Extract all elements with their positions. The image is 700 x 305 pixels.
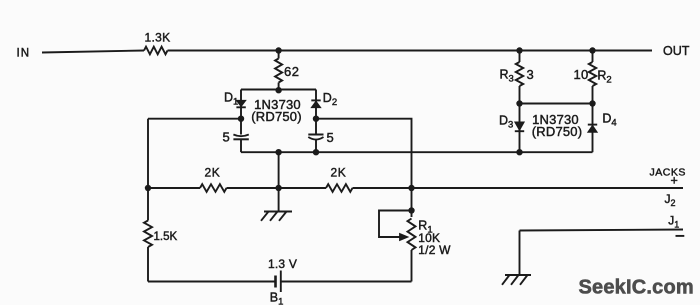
svg-text:JACKS: JACKS (650, 167, 686, 179)
wire (315, 90, 317, 135)
svg-text:IN: IN (17, 48, 31, 60)
svg-text:OUT: OUT (663, 44, 690, 58)
junction (408, 185, 414, 191)
wire (592, 104, 594, 153)
svg-text:1.3K: 1.3K (145, 31, 171, 45)
wire (520, 103, 593, 105)
svg-text:1.3 V: 1.3 V (268, 257, 297, 271)
svg-text:10: 10 (574, 67, 589, 82)
junction (589, 100, 595, 106)
jack J2 (665, 192, 676, 208)
junction (516, 100, 522, 106)
watermark SeekIC.com (579, 277, 694, 299)
label 1N3730 (RD750) lower (532, 112, 583, 139)
potentiometer R1 10K 1/2 W (379, 188, 451, 257)
junction (275, 185, 281, 191)
junction (589, 47, 595, 53)
ground (502, 275, 531, 285)
node JACKS + (650, 167, 686, 188)
wire (148, 187, 200, 189)
wire (240, 90, 242, 135)
wire (241, 89, 316, 91)
junction (238, 116, 244, 122)
resistor 1.5K (144, 221, 177, 248)
wire (316, 119, 412, 188)
junction (275, 149, 281, 155)
svg-text:1/2 W: 1/2 W (418, 243, 451, 257)
wire (281, 281, 412, 283)
wire (278, 152, 280, 188)
junction (313, 149, 319, 155)
svg-text:SeekIC.com: SeekIC.com (579, 277, 694, 299)
ground (261, 188, 292, 221)
capacitor 5 (left) (223, 130, 249, 145)
wire (148, 118, 241, 120)
capacitor 5 (right) (308, 130, 333, 145)
svg-text:(RD750): (RD750) (532, 124, 583, 139)
resistor R3 (3) (500, 51, 534, 104)
resistor 2K (left) (200, 166, 227, 192)
wire (147, 247, 149, 282)
svg-text:5: 5 (223, 130, 230, 145)
junction (516, 47, 522, 53)
svg-text:1.5K: 1.5K (154, 231, 178, 243)
junction (275, 87, 281, 93)
resistor R2 (10) (574, 51, 612, 104)
svg-text:5: 5 (327, 130, 334, 145)
battery B1 1.3 V (268, 257, 297, 305)
wire (240, 140, 242, 152)
svg-text:(RD750): (RD750) (251, 109, 302, 124)
wire (519, 231, 521, 276)
resistor 62 (275, 51, 299, 90)
wire (148, 281, 276, 283)
node IN (17, 48, 31, 60)
svg-text:62: 62 (284, 64, 299, 79)
junction (313, 116, 319, 122)
wire (353, 187, 684, 189)
wire (42, 51, 144, 53)
resistor 2K (right) (326, 166, 353, 192)
wire (227, 187, 327, 189)
wire (519, 104, 521, 153)
svg-text:+: + (671, 174, 678, 188)
node OUT (663, 44, 690, 58)
diode D3 (499, 114, 524, 132)
svg-text:2K: 2K (331, 166, 347, 180)
resistor 1.3K (144, 31, 170, 55)
diode D2 (311, 91, 337, 108)
svg-text:2K: 2K (205, 166, 221, 180)
diode D1 (224, 90, 246, 107)
wire (411, 250, 413, 282)
junction (275, 47, 281, 53)
jack J1 (520, 214, 685, 236)
diode D4 (588, 111, 617, 132)
label 1N3730 (RD750) upper (251, 97, 302, 124)
junction (145, 185, 151, 191)
wire (241, 151, 593, 153)
junction (516, 149, 522, 155)
wire (147, 119, 149, 221)
wire (315, 140, 317, 152)
wire (168, 50, 653, 52)
svg-text:3: 3 (527, 67, 534, 82)
